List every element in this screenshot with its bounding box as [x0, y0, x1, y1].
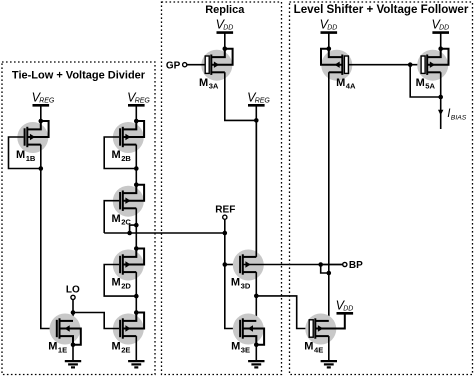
- node M1B source junction: [39, 166, 44, 171]
- node M2C source junction: [134, 223, 139, 228]
- wire M2D source down: [135, 272, 137, 296]
- svg-text:3D: 3D: [241, 281, 251, 290]
- wire V_REG bar to node: [255, 105, 257, 120]
- wire M5A diode loop: [410, 65, 441, 97]
- wire M2C source down to M2D: [135, 208, 137, 248]
- node M2B source junction: [134, 166, 139, 171]
- svg-text:2E: 2E: [121, 345, 130, 354]
- wire M3D source to M3E drain: [255, 296, 257, 321]
- svg-text:DD: DD: [439, 25, 449, 32]
- wire BP to terminal: [321, 264, 343, 266]
- wire REF to M3D gate: [225, 264, 239, 266]
- wire V_DD to M3A drain: [224, 33, 226, 49]
- svg-text:M: M: [112, 213, 121, 225]
- svg-text:1B: 1B: [26, 154, 36, 163]
- svg-text:M: M: [231, 341, 240, 353]
- wire M2E source to ground: [135, 336, 137, 361]
- svg-text:3A: 3A: [209, 82, 219, 91]
- svg-text:M: M: [199, 77, 208, 89]
- svg-text:LO: LO: [66, 285, 80, 296]
- svg-text:Replica: Replica: [205, 4, 245, 16]
- wire M4A source down to BP: [328, 72, 330, 273]
- svg-text:REF: REF: [215, 204, 235, 215]
- wire M3A source to V_REG node: [225, 72, 256, 120]
- wire REF down to M3E gate: [225, 265, 239, 329]
- svg-text:M: M: [112, 341, 121, 353]
- transistor M1E: [50, 314, 81, 345]
- svg-text:GP: GP: [166, 61, 181, 72]
- supply V_DD (above M5A): [432, 31, 449, 34]
- dashed box: Tie-Low + Voltage Divider: [2, 62, 155, 375]
- svg-text:M: M: [112, 149, 121, 161]
- svg-text:DD: DD: [223, 25, 233, 32]
- ground (M2E): [128, 360, 144, 362]
- terminal BP: [343, 262, 347, 266]
- svg-text:M: M: [112, 277, 121, 289]
- node BP junction: [318, 262, 323, 267]
- svg-text:REG: REG: [135, 97, 151, 104]
- svg-text:1E: 1E: [58, 345, 67, 354]
- wire M2B source to M2C drain: [135, 169, 137, 185]
- svg-text:Tie-Low + Voltage Divider: Tie-Low + Voltage Divider: [12, 69, 146, 81]
- svg-text:REG: REG: [39, 97, 55, 104]
- terminal GP: [183, 63, 187, 67]
- supply V_DD (above M4E): [337, 312, 354, 315]
- wire V_REG node down to M3D drain: [255, 120, 257, 257]
- transistor M3E: [233, 314, 264, 345]
- wire M2D gate diode loop: [104, 265, 136, 297]
- wire jog M2C source to REF: [130, 225, 137, 233]
- svg-text:M: M: [416, 77, 425, 89]
- wire M1E source to ground: [72, 345, 74, 362]
- node REF junction: [223, 231, 228, 236]
- node gate junction M4A-M5A: [408, 62, 413, 67]
- svg-text:M: M: [336, 77, 345, 89]
- wire V_DD to M5A drain: [440, 33, 442, 49]
- svg-text:M: M: [48, 341, 57, 353]
- svg-text:M: M: [304, 341, 313, 353]
- svg-text:BP: BP: [349, 260, 363, 271]
- wire M1B gate diode loop: [9, 137, 41, 169]
- wire M2B source down: [135, 145, 137, 169]
- wire M2B gate diode loop: [104, 137, 136, 169]
- svg-text:REG: REG: [255, 97, 271, 104]
- supply V_REG (above M1B): [33, 104, 50, 107]
- wire V_REG to M2B drain: [135, 105, 137, 121]
- node V_REG junction: [254, 118, 259, 123]
- wire M3D source down: [255, 272, 257, 296]
- wire M1B source to M1E gate: [41, 169, 56, 329]
- svg-text:2D: 2D: [121, 281, 131, 290]
- wire M3D bulk to BP: [243, 264, 345, 266]
- wire LO to M1E drain: [72, 313, 74, 321]
- wire V_REG to M1B drain: [40, 105, 42, 121]
- wire REF terminal down: [224, 219, 226, 264]
- supply V_DD (above M4A): [321, 31, 338, 34]
- wire M3D drain up: [255, 120, 257, 257]
- wire M4E source to ground: [328, 336, 330, 361]
- transistor M2B: [113, 122, 144, 153]
- wire BP down to M4E drain: [328, 273, 330, 321]
- wire M3D source to M4E gate: [256, 296, 309, 329]
- svg-text:DD: DD: [343, 305, 353, 312]
- terminal REF: [223, 215, 227, 219]
- svg-text:2B: 2B: [121, 154, 131, 163]
- wire GP to M3A gate: [187, 64, 205, 66]
- terminal LO: [71, 295, 75, 299]
- node BP jog junction: [327, 271, 332, 276]
- transistor M3D: [233, 250, 264, 281]
- svg-text:DD: DD: [327, 25, 337, 32]
- svg-text:5A: 5A: [425, 82, 435, 91]
- dashed box: Level Shifter + Voltage Follower: [290, 2, 473, 375]
- wire LO terminal down: [72, 300, 74, 313]
- svg-text:3E: 3E: [241, 345, 250, 354]
- ground (M4E): [321, 360, 337, 362]
- wire M4A gate to M5A gate: [349, 64, 422, 66]
- svg-text:4E: 4E: [314, 345, 323, 354]
- transistor M1B: [17, 122, 48, 153]
- wire M1B source down: [40, 145, 42, 169]
- transistor M3A: [201, 50, 232, 81]
- node LO junction: [71, 310, 76, 315]
- transistor M2C: [113, 186, 144, 217]
- dashed box: Replica: [162, 2, 282, 375]
- node jog-REF junction: [127, 231, 132, 236]
- ground (M1E): [65, 360, 81, 362]
- wire BP jog: [321, 265, 329, 274]
- transistor M2D: [113, 250, 144, 281]
- svg-text:M: M: [231, 277, 240, 289]
- supply V_REG (replica): [248, 104, 265, 107]
- supply V_DD (above M3A): [217, 31, 234, 34]
- wire M2C gate diode loop: [104, 201, 119, 233]
- wire LO to M2E gate: [73, 313, 119, 329]
- wire M3E source to ground: [255, 345, 257, 362]
- wire net REF: [104, 232, 225, 234]
- node M2D source junction: [134, 294, 139, 299]
- svg-text:M: M: [16, 149, 25, 161]
- transistor M4A: [321, 50, 352, 81]
- node REF gate branch: [223, 262, 228, 267]
- node M5A loop junction: [438, 95, 443, 100]
- wire M5A source down: [440, 72, 442, 129]
- wire V_DD to M4A drain: [328, 33, 330, 49]
- wire M2D source to M2E drain: [135, 296, 137, 312]
- svg-text:Level Shifter + Voltage Follow: Level Shifter + Voltage Follower: [294, 3, 469, 16]
- current source I_BIAS arrow: [438, 110, 443, 116]
- transistor M5A: [417, 50, 448, 81]
- node M3D source junction: [254, 294, 259, 299]
- transistor M4E: [305, 314, 336, 345]
- transistor M2E: [113, 314, 144, 345]
- svg-text:4A: 4A: [346, 82, 356, 91]
- ground (M3E): [248, 360, 264, 362]
- svg-text:BIAS: BIAS: [451, 115, 467, 122]
- supply V_REG (above M2B): [128, 104, 145, 107]
